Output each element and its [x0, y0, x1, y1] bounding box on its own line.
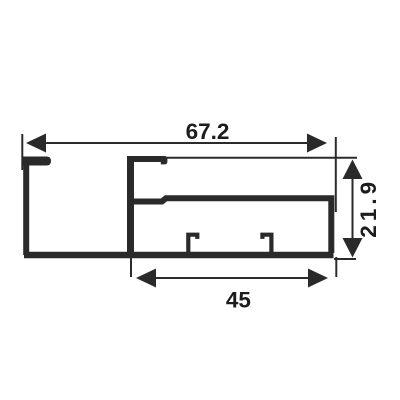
dim line 21.9: [352, 163, 354, 253]
ext line 21.9 top: [167, 157, 357, 159]
top-left hook bar: [23, 157, 51, 166]
dim line 45: [154, 277, 310, 279]
shelf and box top and box right wall: [127, 198, 331, 253]
dim line 67.2: [44, 142, 310, 144]
svg-text:45: 45: [226, 288, 251, 313]
arrow 21.9 down: [343, 238, 363, 258]
ext line 67.2 right: [335, 137, 337, 212]
arrow 21.9 up: [343, 160, 363, 180]
ext line 45 left: [130, 258, 132, 277]
F top bar: [127, 156, 164, 162]
middle wall: [127, 157, 134, 254]
ext line 45 right: [335, 257, 337, 277]
arrow 45 left: [136, 269, 156, 288]
arrow 67.2 right: [307, 134, 327, 153]
left wall: [23, 157, 29, 255]
bottom wall: [24, 252, 334, 259]
ext line 67.2 left: [21, 134, 23, 170]
hook A: [188, 235, 197, 252]
svg-text:21.9: 21.9: [356, 178, 381, 238]
ext line 21.9 bottom: [334, 258, 356, 260]
arrow 45 right: [308, 269, 328, 288]
arrow 67.2 left: [26, 134, 46, 153]
F top bar end nub: [161, 156, 168, 164]
hook B: [262, 235, 271, 252]
svg-text:67.2: 67.2: [186, 119, 230, 144]
